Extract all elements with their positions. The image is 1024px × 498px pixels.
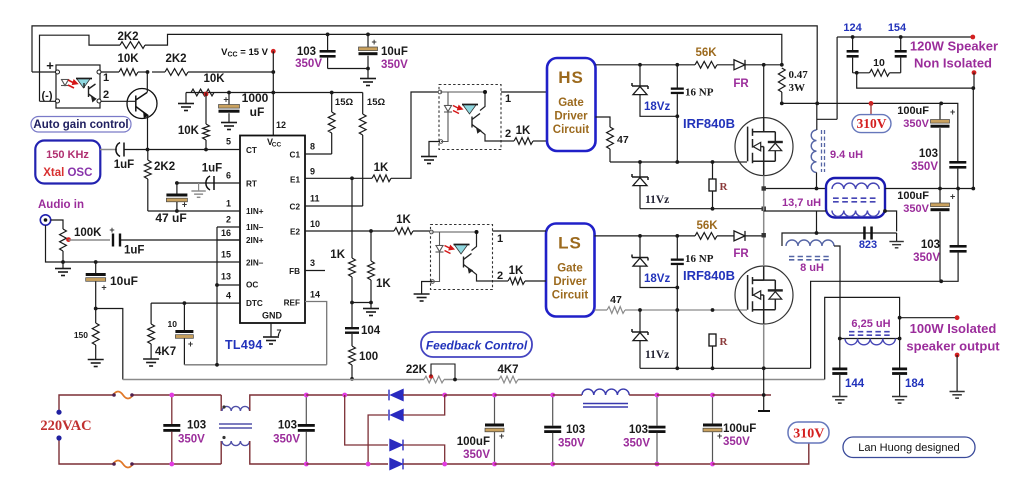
svg-text:FB: FB	[289, 267, 300, 276]
svg-text:154: 154	[888, 22, 907, 34]
svg-text:47: 47	[617, 134, 629, 146]
svg-text:144: 144	[845, 378, 865, 390]
resistor 47 HS	[607, 127, 614, 149]
svg-text:1: 1	[497, 233, 503, 245]
svg-text:184: 184	[905, 378, 925, 390]
wire transformer bottom left	[764, 210, 826, 212]
svg-text:103: 103	[566, 424, 585, 436]
svg-text:56K: 56K	[696, 220, 718, 232]
node collector dot	[146, 70, 150, 74]
wire 310V rail	[782, 102, 941, 104]
ground 823	[896, 233, 898, 241]
wire source rail up to output	[811, 281, 942, 368]
op-amp LS gate driver box	[546, 224, 595, 317]
wire M2 gate	[740, 309, 747, 311]
capacitor 124	[851, 35, 855, 39]
wire DTC line	[151, 302, 240, 304]
wire opto1 out1 to HS	[501, 91, 547, 93]
svg-text:150: 150	[74, 330, 88, 340]
capacitor 10uF input	[95, 262, 97, 273]
pin 7 ground	[270, 323, 272, 337]
wire bridge top	[306, 394, 388, 396]
svg-text:TL494: TL494	[225, 338, 263, 352]
wire top rail 1	[32, 26, 817, 104]
svg-text:Non Isolated: Non Isolated	[914, 56, 992, 71]
potentiometer 22K	[424, 376, 444, 383]
svg-text:Gate: Gate	[558, 97, 584, 109]
svg-text:1: 1	[226, 199, 231, 209]
opto0 LED	[61, 80, 69, 86]
wire 8uH to isolated out	[834, 246, 840, 339]
svg-text:6: 6	[226, 171, 231, 181]
wire top rail 2 with inline resistor drop	[40, 35, 121, 101]
diode FR HS	[734, 60, 745, 70]
wire bridge bottom	[306, 463, 388, 465]
box Feedback Control	[421, 332, 532, 357]
svg-text:1uF: 1uF	[114, 159, 134, 171]
wire E1 to opto1	[391, 92, 439, 178]
wire xtal to 1uF	[100, 149, 117, 151]
wire C1 line	[305, 153, 332, 155]
svg-text:C1: C1	[290, 150, 301, 159]
transformer line filter	[220, 395, 222, 411]
capacitor 103 B	[950, 245, 967, 253]
svg-text:47: 47	[610, 294, 622, 306]
oval 310V top	[870, 103, 872, 114]
wire speaker top terminal	[901, 36, 973, 38]
svg-text:DTC: DTC	[246, 299, 263, 308]
resistor 56K HS	[695, 61, 717, 68]
wire opto0 in bottom	[40, 100, 57, 102]
svg-text:12: 12	[276, 120, 286, 130]
svg-text:18Vz: 18Vz	[644, 101, 670, 113]
potentiometer 100K	[60, 229, 67, 251]
opto0 transistor	[84, 83, 96, 101]
wire psu top rail	[59, 395, 113, 412]
svg-text:(-): (-)	[42, 90, 53, 102]
svg-text:1uF: 1uF	[202, 163, 222, 175]
svg-text:2K2: 2K2	[165, 53, 186, 65]
svg-text:LS: LS	[558, 234, 582, 253]
wire speaker feed	[837, 36, 853, 38]
opto-isolator U4 LS	[431, 225, 493, 290]
wire bias rail	[186, 92, 273, 94]
svg-text:11Vz: 11Vz	[645, 349, 669, 361]
zener 11Vz LS	[639, 310, 641, 332]
resistor 150	[95, 309, 97, 324]
wire E2 to opto2	[413, 230, 431, 232]
wire 15ohm feed	[273, 92, 362, 94]
diode D1	[389, 390, 403, 401]
svg-text:15: 15	[221, 250, 231, 260]
svg-text:2: 2	[226, 215, 231, 225]
box 150KHz Xtal OSC	[35, 141, 100, 184]
resistor R HS	[712, 162, 714, 179]
svg-text:124: 124	[843, 22, 862, 34]
svg-text:10: 10	[168, 319, 178, 329]
svg-text:speaker output: speaker output	[906, 339, 1000, 354]
wire LS top rail	[595, 235, 696, 237]
svg-text:1K: 1K	[516, 125, 531, 137]
isolated - terminal	[955, 353, 960, 358]
svg-text:100uF: 100uF	[723, 423, 756, 435]
wire M1 gate	[740, 161, 747, 163]
svg-text:310V: 310V	[857, 116, 887, 131]
resistor 56K LS	[695, 233, 717, 240]
svg-text:100uF: 100uF	[897, 190, 929, 202]
resistor 10K vertical	[205, 93, 207, 125]
capacitor 103 A	[941, 103, 958, 161]
svg-text:10: 10	[873, 57, 885, 69]
resistor 0.47 3W	[778, 68, 785, 92]
resistor 100	[349, 346, 356, 365]
svg-text:+: +	[188, 339, 193, 349]
capacitor 103 psu3	[495, 394, 553, 396]
svg-text:104: 104	[361, 325, 381, 337]
svg-text:1000: 1000	[242, 91, 269, 105]
svg-text:Circuit: Circuit	[553, 124, 590, 136]
capacitor 103 psu1	[171, 395, 173, 424]
wire transformer bottom right	[885, 211, 897, 231]
capacitor 1000uF	[228, 93, 230, 105]
svg-text:+: +	[499, 431, 504, 441]
svg-text:22K: 22K	[406, 364, 428, 376]
svg-text:+: +	[109, 225, 114, 235]
svg-text:350V: 350V	[295, 58, 322, 70]
wire M1 source	[763, 176, 765, 237]
svg-text:16 NP: 16 NP	[685, 253, 714, 265]
resistor 10 snubber	[853, 72, 870, 74]
wire pot wiper	[69, 239, 111, 241]
svg-text:100: 100	[359, 351, 378, 363]
svg-text:Driver: Driver	[553, 276, 587, 288]
wire pins tie vertical	[216, 227, 218, 365]
wire LS drive	[595, 309, 608, 311]
svg-text:18Vz: 18Vz	[644, 273, 670, 285]
svg-text:+: +	[950, 192, 955, 202]
capacitor 10 dtc	[183, 303, 185, 330]
svg-text:Driver: Driver	[554, 111, 588, 123]
svg-text:Auto gain control: Auto gain control	[33, 119, 128, 131]
svg-text:350V: 350V	[178, 434, 205, 446]
resistor 1K pulldown A	[351, 178, 353, 258]
diode D3 branch	[345, 395, 388, 445]
capacitor 154	[853, 36, 901, 38]
svg-text:E1: E1	[290, 175, 300, 184]
svg-text:350V: 350V	[623, 438, 650, 450]
op-amp U1 TL494 box	[240, 136, 305, 324]
svg-text:2IN–: 2IN–	[246, 259, 264, 268]
svg-text:9.4 uH: 9.4 uH	[830, 149, 863, 161]
transistor Q1	[127, 89, 157, 119]
svg-text:10K: 10K	[117, 53, 139, 65]
svg-text:+: +	[717, 431, 722, 441]
ground RT gray	[198, 183, 200, 191]
svg-text:2: 2	[103, 89, 109, 101]
svg-text:R: R	[720, 336, 729, 348]
op-amp HS gate driver box	[547, 58, 596, 151]
svg-text:14: 14	[310, 290, 320, 300]
svg-text:Audio in: Audio in	[38, 199, 84, 211]
capacitor 103 psu4	[656, 395, 658, 426]
svg-text:8 uH: 8 uH	[800, 262, 824, 274]
wire opto0 in top	[32, 71, 56, 73]
resistor 10K (opto)	[119, 69, 138, 76]
wire feedback line	[123, 379, 424, 381]
wire 2IN+ stub segment	[217, 239, 240, 241]
svg-text:100K: 100K	[74, 227, 102, 239]
resistor 4K7	[150, 303, 152, 324]
wire pot bottom ground	[61, 260, 65, 264]
wire RT line	[177, 182, 240, 184]
svg-text:2K2: 2K2	[154, 161, 175, 173]
svg-text:350V: 350V	[558, 438, 585, 450]
wire OC stub	[217, 284, 240, 286]
capacitor 16NP LS	[676, 236, 678, 259]
opto0 red arrows	[68, 80, 77, 88]
capacitor 10uF top	[367, 34, 369, 47]
node pulldown join	[352, 302, 371, 304]
box Lan Huong designed	[843, 437, 975, 458]
wire psu to mosfet rail	[713, 394, 772, 396]
resistor 15ohm B	[362, 93, 364, 115]
wire emitter Q1	[147, 115, 149, 150]
resistor 15ohm A	[331, 93, 333, 113]
svg-text:1IN–: 1IN–	[246, 223, 264, 232]
svg-text:103: 103	[278, 420, 297, 432]
wire isolated + terminal	[900, 317, 958, 319]
svg-text:350V: 350V	[463, 449, 490, 461]
wire M2 source	[763, 324, 765, 369]
svg-text:350V: 350V	[273, 434, 300, 446]
wire 1uF to 2IN+	[121, 239, 240, 241]
fuse bottom	[113, 461, 133, 468]
svg-text:15Ω: 15Ω	[335, 97, 354, 108]
svg-text:220VAC: 220VAC	[40, 418, 91, 434]
svg-text:2: 2	[505, 128, 511, 140]
svg-text:+: +	[182, 200, 187, 210]
resistor 2K2 top	[120, 42, 145, 49]
svg-text:350V: 350V	[723, 436, 750, 448]
wire 1IN+ line	[148, 210, 240, 212]
svg-text:10uF: 10uF	[381, 46, 408, 58]
inductor 8uH	[786, 240, 834, 246]
transistor M2 IRF840B LS	[735, 266, 793, 324]
wire FB stub	[305, 270, 325, 272]
svg-text:56K: 56K	[695, 47, 717, 59]
resistor 4K7 feedback	[499, 376, 518, 383]
svg-text:2: 2	[497, 270, 503, 282]
svg-text:100uF: 100uF	[897, 105, 929, 117]
svg-text:350V: 350V	[903, 118, 929, 130]
capacitor 47uF	[176, 183, 178, 194]
svg-text:100uF: 100uF	[457, 436, 490, 448]
label Auto gain control	[31, 117, 131, 133]
svg-text:1K: 1K	[374, 162, 389, 174]
svg-text:103: 103	[297, 46, 316, 58]
wire rail 2 right part	[145, 34, 782, 64]
svg-text:350V: 350V	[903, 203, 929, 215]
svg-text:10: 10	[310, 219, 320, 229]
wire 10K to node	[138, 71, 148, 73]
resistor 2K2 vertical	[147, 150, 149, 161]
wire psu bottom mid	[553, 463, 657, 465]
oval 310V bottom	[788, 422, 829, 443]
svg-text:uF: uF	[250, 105, 265, 119]
capacitor 1uF xtal	[116, 143, 124, 157]
capacitor 100uF psu2	[712, 395, 714, 424]
svg-text:Feedback Control: Feedback Control	[426, 339, 528, 353]
svg-text:13,7 uH: 13,7 uH	[782, 197, 821, 209]
wire REF loop	[305, 302, 327, 365]
ground top caps	[367, 69, 369, 79]
svg-text:CC: CC	[272, 142, 282, 149]
capacitor 1uF RT	[206, 176, 214, 190]
svg-text:1IN+: 1IN+	[246, 207, 264, 216]
wire 1IN- stub	[217, 226, 240, 228]
ground bias	[185, 93, 187, 104]
wire opto2 out1 to LS	[493, 230, 547, 232]
svg-text:10K: 10K	[178, 125, 200, 137]
svg-text:HS: HS	[558, 68, 584, 87]
resistor 1K E2	[394, 228, 413, 235]
wire transformer secondary top	[885, 188, 973, 190]
svg-text:4: 4	[226, 291, 231, 301]
svg-text:R: R	[720, 181, 729, 193]
capacitor 100uF psu1	[494, 395, 496, 424]
svg-text:1K: 1K	[509, 265, 524, 277]
resistor R LS	[709, 334, 716, 346]
svg-text:Lan Huong designed: Lan Huong designed	[858, 442, 960, 454]
wire psu bottom to 310V	[713, 443, 809, 464]
svg-text:103: 103	[921, 239, 940, 251]
svg-text:1K: 1K	[376, 278, 391, 290]
svg-text:47 uF: 47 uF	[155, 211, 186, 225]
resistor 1K LS	[493, 280, 509, 282]
speaker bottom terminal	[972, 70, 977, 75]
inductor 6.25uH	[840, 338, 900, 340]
svg-text:3: 3	[310, 258, 315, 268]
wire ref return rail	[184, 364, 326, 366]
svg-text:13: 13	[221, 272, 231, 282]
svg-text:823: 823	[859, 239, 877, 251]
svg-text:350V: 350V	[381, 59, 408, 71]
svg-text:350V: 350V	[913, 252, 940, 264]
wire switch node to transformer	[764, 188, 826, 190]
node 310V red dot	[869, 101, 874, 106]
svg-text:RT: RT	[246, 179, 257, 188]
svg-text:Gate: Gate	[557, 263, 583, 275]
wire 8uH node	[782, 233, 817, 246]
svg-text:16: 16	[221, 228, 231, 238]
resistor 2K2 (to Vcc)	[152, 71, 165, 73]
svg-text:1uF: 1uF	[124, 245, 144, 257]
wire jack to pot	[51, 220, 63, 229]
svg-text:C2: C2	[290, 202, 301, 211]
svg-text:11Vz: 11Vz	[645, 194, 669, 206]
svg-text:310V: 310V	[793, 427, 824, 442]
svg-text:10K: 10K	[203, 73, 225, 85]
svg-text:9: 9	[310, 167, 315, 177]
svg-text:103: 103	[919, 148, 938, 160]
inductor 9.4uH	[816, 103, 818, 130]
svg-text:+: +	[223, 95, 228, 105]
svg-text:8: 8	[310, 142, 315, 152]
wire Vcc vertical	[272, 51, 274, 135]
wire HS top rail	[596, 64, 696, 66]
wire speaker bottom	[857, 73, 974, 88]
svg-text:16 NP: 16 NP	[685, 87, 714, 99]
svg-text:11: 11	[310, 194, 320, 204]
wire C2 line	[305, 205, 363, 207]
wire base Q1	[101, 100, 136, 102]
wire jack shield	[46, 225, 64, 262]
svg-text:1K: 1K	[396, 214, 411, 226]
svg-text:IRF840B: IRF840B	[683, 268, 735, 283]
transformer 13.7uH box	[826, 178, 885, 218]
svg-text:4K7: 4K7	[497, 364, 518, 376]
capacitor 823	[863, 227, 873, 240]
wire 10uF to feedback line	[96, 309, 123, 380]
wire HS drive down	[596, 117, 611, 127]
capacitor 184	[899, 339, 901, 368]
svg-text:FR: FR	[733, 78, 749, 90]
opto0 photodetector	[76, 79, 92, 89]
ground opto1	[429, 142, 440, 157]
capacitor 144	[839, 339, 841, 368]
svg-text:1K: 1K	[330, 249, 345, 261]
svg-text:FR: FR	[733, 248, 749, 260]
node 10uF bottom	[94, 307, 98, 311]
svg-text:E2: E2	[290, 227, 300, 236]
resistor 47 LS	[607, 307, 625, 314]
svg-text:+: +	[46, 58, 54, 73]
wire E1 line	[305, 177, 372, 179]
resistor 1K pulldown B	[370, 231, 372, 261]
capacitor 1uF audio	[112, 234, 121, 247]
wire opto0 pin1 to node	[101, 71, 119, 73]
svg-text:120W Speaker: 120W Speaker	[910, 39, 998, 54]
wire E2 line	[305, 230, 394, 232]
node wiper red dot	[204, 92, 209, 97]
wire M2 drain	[763, 236, 765, 266]
svg-text:6,25 uH: 6,25 uH	[851, 318, 890, 330]
svg-text:103: 103	[629, 424, 648, 436]
zener 18Vz LS	[639, 236, 641, 258]
wire collector Q1	[146, 72, 148, 93]
svg-text:4K7: 4K7	[155, 346, 176, 358]
diode D4	[390, 459, 403, 470]
svg-text:1: 1	[505, 93, 511, 105]
svg-text:103: 103	[187, 420, 206, 432]
ground pulldown	[370, 303, 372, 309]
capacitor 16NP HS	[676, 65, 678, 88]
wire 2IN- line	[63, 261, 240, 263]
capacitor 100uF B	[939, 189, 941, 204]
svg-text:+: +	[372, 37, 377, 47]
wire HS source rail	[640, 208, 764, 210]
inductor psu choke	[553, 394, 582, 396]
svg-text:7: 7	[277, 328, 282, 338]
svg-text:5: 5	[226, 137, 231, 147]
zener 11Vz HS	[639, 162, 641, 177]
svg-text:0.47: 0.47	[789, 69, 809, 81]
opto-isolator U3 HS	[439, 85, 501, 150]
svg-text:CT: CT	[246, 146, 257, 155]
wire cap bottoms	[328, 68, 368, 70]
capacitor 100uF A	[939, 103, 941, 119]
wire M1 drain	[763, 65, 765, 118]
